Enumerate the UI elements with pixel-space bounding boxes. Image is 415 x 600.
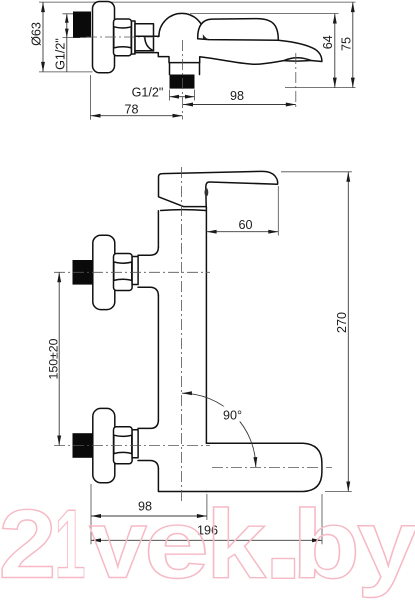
indicator dot on handle bbox=[205, 188, 209, 196]
svg-text:270: 270 bbox=[335, 312, 349, 333]
arrow 64 down bbox=[333, 78, 337, 88]
hex nut top view bbox=[114, 19, 132, 56]
extension line wall plane bottom dims bbox=[90, 484, 92, 544]
svg-text:64: 64 bbox=[321, 35, 335, 49]
centre line spout axis bbox=[212, 467, 332, 469]
dimension 98 front line bbox=[91, 515, 207, 517]
body and spout outline top view bbox=[135, 51, 284, 65]
svg-text:y: y bbox=[357, 490, 415, 599]
svg-text:75: 75 bbox=[340, 37, 354, 51]
indicator wedge under dome bbox=[203, 34, 210, 39]
svg-text:v: v bbox=[89, 490, 147, 599]
faucet body front view bbox=[158, 207, 206, 492]
outlet boss vertical edges bbox=[170, 63, 200, 75]
svg-text:1: 1 bbox=[55, 490, 86, 599]
arrow G1/2 up bbox=[65, 14, 69, 23]
extension line body right edge for 98 bbox=[206, 494, 208, 520]
dimension 98 top view line bbox=[183, 104, 296, 106]
dimension 64 line bbox=[334, 14, 336, 88]
arrow 75 down bbox=[351, 78, 355, 88]
lower flange front view bbox=[93, 408, 115, 482]
watermark 21vek.by bbox=[0, 490, 415, 599]
handle lever top view bbox=[198, 19, 279, 41]
upper hex nut front view bbox=[114, 254, 133, 291]
centre line lower connection axis bbox=[54, 445, 210, 447]
spout top curve top view bbox=[278, 40, 322, 61]
dimension 78 line bbox=[91, 115, 183, 117]
svg-text:78: 78 bbox=[124, 102, 138, 116]
dimension 75 line bbox=[352, 2, 354, 88]
upper wall pipe (black) front view bbox=[73, 260, 94, 285]
lower hex nut front view bbox=[114, 427, 133, 464]
leader line G1/2 down bbox=[66, 38, 68, 72]
svg-text:90°: 90° bbox=[223, 409, 242, 423]
dimension dia63 line bbox=[42, 2, 44, 72]
dimension outlet G1/2 line with arrows bbox=[170, 96, 195, 98]
label 90deg background bbox=[222, 407, 245, 422]
centre line vertical of outlet top view bbox=[182, 40, 184, 120]
arrow 75 up bbox=[351, 2, 355, 12]
90 degree arc annotation bbox=[182, 393, 256, 467]
svg-text:b: b bbox=[292, 490, 360, 599]
centre line vertical of spout mouth bbox=[295, 53, 297, 108]
extension line wall plane for 78 bbox=[90, 75, 92, 120]
lower stub with fillets bbox=[138, 420, 158, 468]
flange (escutcheon) top view bbox=[93, 2, 115, 73]
svg-text:G1/2": G1/2" bbox=[132, 86, 164, 100]
centre line horizontal of wall connection top view bbox=[86, 36, 162, 38]
extension line bottom (mouth level) for 64/75 bbox=[285, 87, 356, 89]
handle dome top view bbox=[159, 13, 205, 36]
svg-text:Ø63: Ø63 bbox=[30, 22, 44, 46]
dimension 60 extension line at lever tip bbox=[277, 186, 279, 236]
extension line top for 270 bbox=[281, 171, 352, 173]
arrow dia63 down bbox=[41, 62, 45, 72]
dimension 60 line bbox=[207, 231, 279, 233]
centre line upper connection axis bbox=[54, 271, 210, 273]
lower wall pipe (black) front view bbox=[73, 433, 94, 458]
lower collar front view bbox=[132, 430, 138, 458]
outlet threaded pipe (black) top view bbox=[170, 75, 195, 89]
svg-text:2: 2 bbox=[0, 490, 56, 599]
dimension 150+-20 line bbox=[58, 272, 60, 445]
handle lever front view bbox=[159, 171, 278, 206]
extension line top (flange top, shared by dia63 and 75 dims) bbox=[39, 1, 356, 3]
svg-text:60: 60 bbox=[238, 218, 252, 232]
dimension G1/2 wall line bbox=[66, 14, 68, 38]
extension line bottom of flange for dia63 bbox=[39, 71, 93, 73]
extension lines G1/2 wall thread bbox=[63, 13, 81, 15]
collar top view bbox=[132, 21, 136, 54]
inner arc detail in connector bbox=[145, 38, 154, 51]
extension line for 64 dim (lever top) bbox=[190, 13, 339, 15]
upper flange front view bbox=[93, 235, 115, 309]
body top edge front view bbox=[161, 209, 206, 212]
extension line spout tip for 196 bbox=[321, 494, 323, 544]
svg-text:98: 98 bbox=[230, 89, 244, 103]
dimension 270 line bbox=[347, 172, 349, 492]
wall eccentric threaded pipe (black) top view bbox=[73, 12, 91, 38]
arrow dia63 up bbox=[41, 2, 45, 12]
svg-text:G1/2": G1/2" bbox=[54, 38, 68, 70]
spout front view bbox=[206, 443, 322, 491]
extension lines outlet G1/2 bbox=[169, 90, 171, 101]
svg-text:k: k bbox=[206, 490, 267, 599]
upper collar front view bbox=[132, 257, 138, 285]
connector block top view bbox=[135, 24, 154, 51]
svg-text:150±20: 150±20 bbox=[46, 338, 60, 379]
dimension 196 line bbox=[91, 539, 322, 541]
body top edge behind connector bbox=[136, 35, 159, 37]
upper stub with fillets bbox=[138, 247, 158, 295]
centre line vertical body axis bbox=[181, 167, 183, 502]
spout mouth lip lens bbox=[284, 58, 311, 61]
extension line bottom for 270 bbox=[325, 491, 352, 493]
arrow G1/2 down bbox=[65, 29, 69, 38]
svg-text:e: e bbox=[144, 490, 209, 599]
arrow 64 up bbox=[333, 14, 337, 24]
